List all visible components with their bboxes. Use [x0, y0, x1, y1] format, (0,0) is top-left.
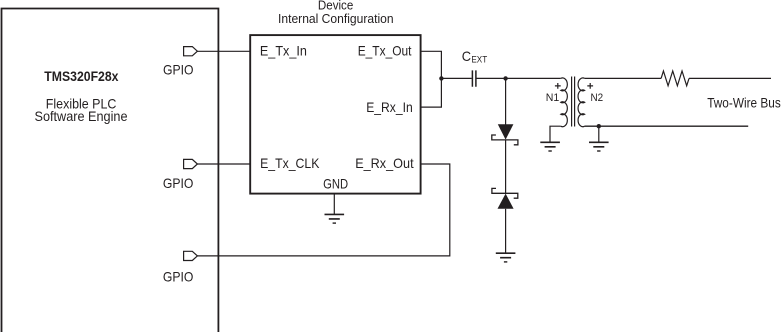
svg-text:GPIO: GPIO — [163, 62, 194, 78]
ground below N1 — [540, 142, 560, 151]
wire C_EXT to transformer primary — [476, 77, 561, 79]
zener diode D1 cathode bar with hooks — [492, 135, 518, 145]
svg-text:E_Tx_Out: E_Tx_Out — [358, 43, 412, 59]
svg-text:E_Rx_In: E_Rx_In — [366, 99, 413, 115]
svg-text:E_Rx_Out: E_Rx_Out — [355, 155, 413, 171]
transformer primary winding N1 — [561, 78, 568, 127]
wire GPIO2 to E_Tx_CLK — [197, 163, 250, 165]
wire GPIO1 to E_Tx_In — [197, 50, 250, 52]
Device Internal Configuration block outline — [250, 35, 420, 194]
wire N2 bottom bus line — [585, 125, 749, 127]
ground below device GND — [325, 214, 345, 223]
svg-text:Two-Wire Bus: Two-Wire Bus — [707, 95, 781, 111]
wire E_Rx_Out to GPIO3 — [197, 164, 449, 256]
GPIO pin symbol 1 — [184, 47, 198, 56]
svg-text:N2: N2 — [591, 92, 604, 104]
ground below N2 — [589, 142, 609, 151]
svg-text:GPIO: GPIO — [163, 269, 194, 285]
junction node at C_EXT branch — [439, 76, 443, 80]
GPIO pin symbol 2 — [184, 159, 198, 168]
polarity mark + on N2 — [587, 83, 593, 89]
polarity mark + on N1 — [555, 83, 561, 89]
zener diode D2 cathode bar with hooks — [492, 188, 518, 198]
svg-text:N1: N1 — [546, 92, 560, 104]
transformer core — [572, 77, 575, 127]
svg-text:TMS320F28x: TMS320F28x — [44, 68, 118, 84]
GPIO pin symbol 3 — [184, 251, 198, 260]
svg-text:E_Tx_In: E_Tx_In — [260, 43, 307, 59]
wire N1 bottom to ground — [550, 126, 561, 142]
wire D1 to D2 — [505, 140, 507, 193]
svg-text:E_Tx_CLK: E_Tx_CLK — [260, 155, 320, 171]
wire N2 top to resistor — [585, 77, 662, 79]
svg-text:EXT: EXT — [471, 54, 487, 65]
svg-text:C: C — [462, 48, 471, 64]
wire GND pin to ground — [333, 194, 335, 214]
wire resistor to bus top — [689, 77, 771, 79]
zener diode D2 triangle — [498, 194, 514, 209]
svg-text:Internal Configuration: Internal Configuration — [278, 11, 394, 26]
ground below D2 — [496, 253, 516, 262]
svg-text:Software Engine: Software Engine — [35, 108, 128, 124]
zener diode D1 triangle — [498, 124, 514, 139]
svg-text:GND: GND — [323, 175, 348, 191]
TMS320F28x block outline — [2, 9, 219, 332]
wire E_Tx_Out to E_Rx_In loop — [421, 51, 442, 107]
wire N2 bottom to ground — [598, 126, 600, 142]
resistor zigzag — [661, 71, 689, 86]
junction node at diode branch — [503, 76, 507, 80]
wire node down to D1 — [505, 78, 507, 124]
wire D2 to ground — [505, 209, 507, 253]
wire node to C_EXT — [441, 77, 471, 79]
svg-text:GPIO: GPIO — [163, 175, 194, 191]
capacitor C_EXT plates — [472, 70, 476, 86]
junction node on N2 bottom — [597, 124, 601, 128]
transformer secondary winding N2 — [578, 78, 585, 127]
